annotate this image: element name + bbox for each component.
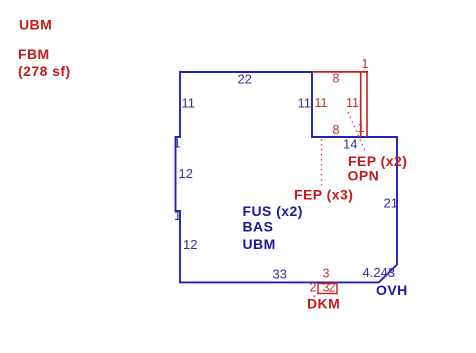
svg-text:14: 14: [343, 137, 357, 152]
svg-text:22: 22: [238, 72, 252, 87]
svg-text:11: 11: [298, 96, 312, 111]
FEP 1ft strip left wall (red): [360, 72, 362, 137]
svg-text:UBM: UBM: [19, 17, 52, 33]
svg-text:11: 11: [346, 96, 359, 110]
FEP 1ft strip right wall (red): [366, 72, 368, 137]
svg-text:3: 3: [323, 267, 330, 281]
svg-text:2: 2: [310, 281, 317, 295]
svg-text:OPN: OPN: [348, 168, 380, 184]
svg-text:DKM: DKM: [307, 296, 340, 312]
svg-text:OVH: OVH: [376, 282, 408, 298]
svg-text:21: 21: [384, 196, 398, 211]
svg-text:12: 12: [183, 237, 197, 252]
svg-text:33: 33: [273, 267, 287, 282]
svg-text:1: 1: [362, 57, 369, 71]
svg-text:1: 1: [174, 136, 181, 151]
svg-text:FBM: FBM: [18, 46, 50, 62]
dotted red divider (FEP x3): [321, 139, 323, 186]
svg-text:8: 8: [333, 123, 340, 137]
svg-text:BAS: BAS: [243, 219, 274, 235]
main building outline (blue walls): [176, 72, 398, 282]
svg-text:1: 1: [358, 121, 365, 135]
svg-text:(278 sf): (278 sf): [18, 63, 71, 79]
dotted red leader to FEP (x2): [348, 112, 366, 153]
svg-text:FUS (x2): FUS (x2): [243, 203, 303, 219]
svg-text:1: 1: [174, 208, 181, 223]
svg-text:11: 11: [182, 96, 196, 111]
svg-text:8: 8: [333, 72, 340, 86]
FEP porch top wall (red): [312, 71, 368, 73]
svg-text:11: 11: [315, 96, 328, 110]
svg-text:12: 12: [179, 166, 193, 181]
svg-text:4.243: 4.243: [363, 265, 396, 280]
svg-text:FEP (x3): FEP (x3): [294, 187, 353, 203]
svg-text:2: 2: [329, 281, 336, 295]
stray dot under DKM dim 2: [313, 295, 315, 297]
DKM deck rectangle (red): [318, 284, 337, 294]
svg-text:UBM: UBM: [243, 236, 276, 252]
